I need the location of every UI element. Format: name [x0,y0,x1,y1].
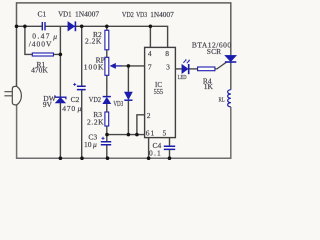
svg-text:C2: C2 [71,95,80,104]
svg-text:7: 7 [148,62,152,71]
wire C2 branch [81,26,83,158]
node pin4 branch junction [149,25,153,29]
svg-text:3: 3 [166,63,170,72]
node VD3 bottom junction [127,133,131,137]
wire pin7 from RP wiper [121,65,145,67]
wire R1 right to DW chain [53,26,60,158]
wire VD3 branch [127,66,129,135]
node C2 bottom on rail [80,156,84,160]
svg-text:μ: μ [93,140,97,149]
potentiometer RP [105,57,109,75]
wire outer loop right rail (SCR to RL) [230,62,232,90]
svg-text:VD1: VD1 [58,9,72,18]
node pin1 bottom on rail [147,156,151,160]
svg-text:470: 470 [62,104,76,113]
capacitor C3 [101,142,111,145]
wire top line with C1/VD1 [17,26,168,47]
node R3 bottom / C3 junction [105,133,109,137]
potentiometer RP wiper arrow [110,63,116,68]
svg-text:1N4007: 1N4007 [150,10,174,19]
plug XP [12,86,21,105]
svg-text:VD3: VD3 [136,10,147,19]
wire R4 to SCR gate [215,62,226,69]
svg-text:6: 6 [146,129,150,138]
wire LED to R4 [189,68,198,70]
svg-text:8: 8 [165,49,169,58]
wire pin4 drop [149,26,151,47]
IC U1 555 box [145,47,176,137]
svg-text:RL: RL [219,96,225,103]
inductor RL coil [228,90,231,107]
wire pin1 drop [148,138,150,159]
wire R1 left branch [25,26,32,54]
SCR triac [225,55,236,61]
wire outer loop right-bottom rail [17,105,231,158]
svg-text:2.2K: 2.2K [87,118,104,127]
node pin7 wire / VD3 junction [127,64,131,68]
svg-text:10: 10 [84,140,92,149]
capacitor C1 [42,22,45,30]
svg-text:1N4007: 1N4007 [75,9,99,18]
node R2 top junction [105,25,109,29]
svg-text:2: 2 [147,111,151,120]
svg-text:100K: 100K [84,62,105,71]
node left rail / C1 wire junction [15,25,19,29]
node DW bottom on rail [59,156,63,160]
svg-text:μ: μ [53,32,57,41]
svg-text:C1: C1 [38,9,47,18]
svg-text:VD2: VD2 [89,95,101,104]
svg-text:470K: 470K [31,66,48,75]
wire left rail to plug top [16,26,18,86]
wire outer loop top rail [17,3,231,56]
capacitor C2 polarity plus [73,83,76,86]
diode VD1 [68,22,75,31]
svg-text:μ: μ [78,104,82,113]
resistor R3 [105,112,109,126]
node R1 right / DW branch junction [59,53,63,57]
node VD1 cathode / C2 branch junction [80,25,84,29]
LED emission arrows [183,60,189,63]
svg-text:5: 5 [163,128,167,137]
capacitor C2 [77,86,86,89]
svg-text:SCR: SCR [207,47,221,56]
svg-text:4: 4 [148,49,152,58]
capacitor C3 polarity plus [102,137,105,140]
zener DW [55,98,65,104]
wire bottom bus W1 to pin6 [107,134,145,136]
svg-text:1K: 1K [204,82,214,91]
node R1 left branch junction [23,25,27,29]
node pin2 drop junction [135,133,139,137]
svg-text:1: 1 [151,129,155,138]
resistor R4 [198,67,215,71]
wire pin5 to C4 [169,138,171,159]
svg-text:VD2: VD2 [122,10,134,19]
svg-text:9V: 9V [43,100,53,109]
wire pin3 to LED [175,68,181,70]
diode VD3 [125,92,133,100]
diode VD2 [103,98,111,104]
svg-text:/400V: /400V [29,39,53,48]
resistor R2 [105,30,109,50]
resistor R1 [32,53,53,56]
wire pin2 [137,115,145,135]
svg-text:LED: LED [178,74,187,81]
wire R2-RP-VD2-R3 chain [106,26,108,158]
svg-text:VD3: VD3 [113,99,123,108]
svg-text:2.2K: 2.2K [85,36,102,45]
capacitor C4 [164,146,175,149]
svg-text:0.1: 0.1 [149,149,162,158]
svg-text:555: 555 [154,87,164,96]
node C3 bottom on rail [106,156,110,160]
node C4 bottom on rail [168,156,172,160]
LED [182,65,188,74]
